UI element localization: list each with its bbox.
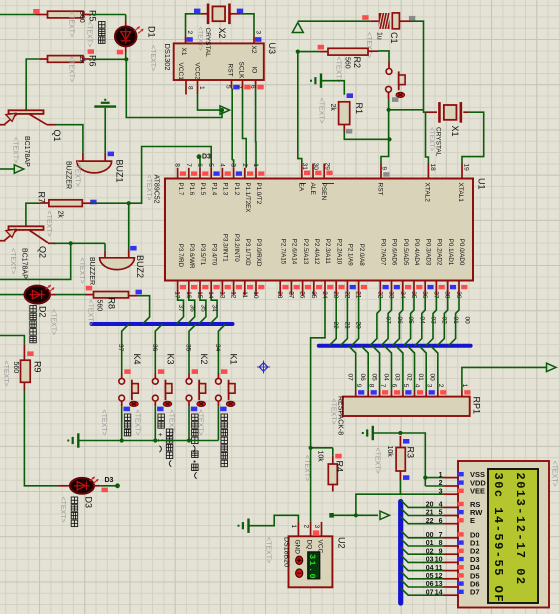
wire Q2 collector node <box>54 242 105 244</box>
svg-text:4: 4 <box>414 384 421 388</box>
svg-text:P2.5/A13: P2.5/A13 <box>302 239 309 265</box>
R4 bottom stub <box>332 485 334 492</box>
LCD screen <box>488 469 538 603</box>
svg-text:Q2: Q2 <box>38 246 48 258</box>
svg-text:<TEXT>: <TEXT> <box>87 300 94 326</box>
U1 port3 pin stubs <box>177 281 179 296</box>
svg-text:<TEXT>: <TEXT> <box>50 309 57 335</box>
VCC rail near U2 <box>329 513 334 518</box>
LED D2 light arrows <box>46 285 51 289</box>
svg-text:<TEXT>: <TEXT> <box>2 361 9 387</box>
pin indicator D3 (red) <box>102 488 108 493</box>
svg-text:U1: U1 <box>477 178 487 190</box>
U3 pin 8 stub (VCC1, n.c.) <box>185 80 187 95</box>
svg-text:ALE: ALE <box>309 183 316 196</box>
wire left edge to D2 <box>0 294 25 296</box>
svg-text:3: 3 <box>230 163 237 167</box>
svg-text:P1.2: P1.2 <box>233 183 240 196</box>
net label D3 at P1.5 <box>199 159 201 168</box>
wire to BUZ2 pin1 <box>104 243 106 250</box>
bus middle <box>319 344 471 348</box>
wire DQ down to U2 pin2 <box>310 448 312 522</box>
svg-text:560: 560 <box>96 300 103 312</box>
svg-text:8: 8 <box>367 384 374 388</box>
svg-text:8: 8 <box>439 540 443 547</box>
junction dot DQ/R4 <box>309 446 313 450</box>
wire X1 left / XTAL2 <box>426 111 438 113</box>
svg-text:04: 04 <box>426 565 434 572</box>
svg-text:6: 6 <box>439 518 443 525</box>
svg-text:10: 10 <box>252 291 259 299</box>
power symbol VCC at U3 pin1 <box>220 106 230 114</box>
pin indicator C1 left (red) <box>362 15 368 20</box>
reset button terminal 1 <box>386 69 392 75</box>
resistor R6 <box>48 56 84 63</box>
svg-text:35: 35 <box>185 344 192 352</box>
svg-text:22: 22 <box>332 322 339 330</box>
svg-text:9: 9 <box>355 384 362 388</box>
wire X2 right to U3 X2 pin <box>229 13 241 15</box>
svg-text:36: 36 <box>188 305 195 313</box>
svg-text:<TEXT>: <TEXT> <box>167 410 174 436</box>
svg-text:00: 00 <box>429 374 436 382</box>
svg-text:R9: R9 <box>32 361 42 373</box>
pin indicator BUZ1 (blue) <box>108 152 114 157</box>
U1 pin 18 stub <box>427 164 429 179</box>
svg-text:2: 2 <box>241 163 248 167</box>
button function labels (Chinese) <box>124 414 131 421</box>
wire reset button to XTAL2 node <box>388 92 390 99</box>
wire VEE branch up <box>356 494 401 515</box>
svg-text:560: 560 <box>12 362 19 374</box>
pin indicator X2 pin2 (blue) <box>237 9 243 14</box>
wire Q1 collector to BUZ1 pin1 <box>56 125 83 153</box>
svg-text:36: 36 <box>151 344 158 352</box>
pin indicator R1 top (blue) <box>347 93 353 98</box>
svg-text:P0.0/AD0: P0.0/AD0 <box>458 239 465 266</box>
svg-text:05: 05 <box>370 374 377 382</box>
LCD pin stubs <box>444 477 459 479</box>
svg-text:R5: R5 <box>88 10 98 22</box>
C1 right wire <box>399 20 412 22</box>
pin indicator reset button (gray) <box>392 97 398 102</box>
svg-text:8: 8 <box>174 163 181 167</box>
pin indicator U3 pin2 (blue) <box>186 37 192 42</box>
svg-text:35: 35 <box>200 305 207 313</box>
resistor R7 <box>49 200 82 207</box>
buzzer BUZ2 <box>100 258 135 270</box>
svg-text:6: 6 <box>249 85 256 89</box>
wire BUZ2 pin2 up <box>128 203 130 250</box>
U2 up button <box>296 556 303 565</box>
svg-text:<TEXT>: <TEXT> <box>330 399 337 425</box>
junction dot R7 wire / BUZ2 pin2 <box>127 201 131 205</box>
wire node A down and right to VCC2 arrow <box>126 59 222 117</box>
svg-text:BUZ1: BUZ1 <box>115 160 125 183</box>
svg-text:10k: 10k <box>317 451 324 463</box>
svg-text:EA: EA <box>298 183 305 192</box>
svg-text:P1.7: P1.7 <box>177 183 184 196</box>
wire R8 right stub <box>129 295 138 297</box>
wire R3 node down to LCD pin1/pin2 <box>424 433 426 486</box>
U1 port0 pin stubs <box>379 281 381 296</box>
svg-text:DS18B20: DS18B20 <box>283 537 290 567</box>
svg-text:<TEXT>: <TEXT> <box>45 211 52 237</box>
pin indicator R2 left (red) <box>318 45 324 50</box>
ground near R3 <box>363 426 373 440</box>
svg-text:BUZZER: BUZZER <box>88 257 95 285</box>
svg-text:CRYSTAL: CRYSTAL <box>204 28 211 58</box>
power symbol VCC left edge <box>0 168 14 170</box>
svg-text:<TEXT>: <TEXT> <box>197 27 204 51</box>
svg-text:P2.4/A12: P2.4/A12 <box>313 239 320 265</box>
svg-text:<TEXT>: <TEXT> <box>68 11 75 37</box>
svg-text:26: 26 <box>299 291 306 299</box>
svg-text:P0.1/AD1: P0.1/AD1 <box>447 239 454 266</box>
svg-text:<TEXT>: <TEXT> <box>145 175 152 201</box>
svg-text:<TEXT>: <TEXT> <box>303 455 310 481</box>
pin indicator R3 bottom (blue) <box>403 475 409 480</box>
svg-text:20: 20 <box>355 322 362 330</box>
svg-text:P3.6/WR: P3.6/WR <box>188 244 195 269</box>
push button K1 <box>217 373 219 378</box>
svg-text:<TEXT>: <TEXT> <box>318 98 325 124</box>
LED D2 <box>25 286 50 304</box>
wire R7 left to Q2 base <box>40 202 49 204</box>
svg-text:P3.7/RD: P3.7/RD <box>177 244 184 268</box>
svg-text:7: 7 <box>439 532 443 539</box>
svg-text:1: 1 <box>290 525 297 529</box>
LED D3 light arrows <box>90 477 95 481</box>
junction dot VCC rail <box>296 50 300 54</box>
svg-text:P2.3/A11: P2.3/A11 <box>324 239 331 265</box>
junction dot Q2 collector <box>69 241 73 245</box>
svg-text:<TEXT>: <TEXT> <box>265 537 272 563</box>
crystal X1 <box>444 105 457 120</box>
svg-text:4: 4 <box>218 163 225 167</box>
pin indicator R5 left (red) <box>33 9 39 14</box>
svg-text:<TEXT>: <TEXT> <box>74 161 81 187</box>
svg-text:C1: C1 <box>389 32 399 44</box>
svg-text:SCLK: SCLK <box>238 62 245 80</box>
svg-text:X1: X1 <box>450 126 460 137</box>
svg-text:VEE: VEE <box>470 487 485 496</box>
svg-text:2: 2 <box>437 384 444 388</box>
U2 down button <box>296 569 303 578</box>
pin indicator U3 pin7 (red) <box>244 85 250 90</box>
wire VCC rail to R5 <box>0 14 36 16</box>
pin indicator U3 pin6 (red) <box>257 85 263 90</box>
svg-text:P3.2/INT0: P3.2/INT0 <box>233 234 240 262</box>
svg-text:5: 5 <box>225 85 232 89</box>
svg-text:560: 560 <box>78 11 85 23</box>
svg-text:19: 19 <box>463 164 470 172</box>
wire D1 cathode down to node <box>125 46 127 52</box>
svg-text:2: 2 <box>302 525 309 529</box>
wire R8 right into bus <box>137 296 150 324</box>
chip U1 AT89C52 body <box>165 179 473 281</box>
junction dot VCC node <box>220 108 224 112</box>
svg-text:25: 25 <box>310 291 317 299</box>
svg-text:IO: IO <box>251 67 258 74</box>
junction dot VEE branch <box>354 513 358 517</box>
svg-text:<TEXT>: <TEXT> <box>100 410 107 436</box>
svg-text:RP1: RP1 <box>472 397 482 415</box>
bus left <box>92 322 233 326</box>
svg-text:K3: K3 <box>166 354 176 365</box>
svg-text:1: 1 <box>439 472 443 479</box>
svg-text:P1.6: P1.6 <box>188 183 195 196</box>
svg-text:BUZZER: BUZZER <box>65 161 72 189</box>
svg-text:<TEXT>: <TEXT> <box>374 448 381 474</box>
svg-text:2: 2 <box>439 480 443 487</box>
wire R3 bottom to VEE wire <box>399 471 401 480</box>
wire LCD pin1 VSS <box>425 477 443 479</box>
wire RP1 pin1 to power arrow <box>462 367 547 390</box>
svg-text:R1: R1 <box>354 103 364 115</box>
svg-text:5: 5 <box>439 510 443 517</box>
svg-text:DS1302: DS1302 <box>163 44 172 71</box>
svg-text:P2.1/A9: P2.1/A9 <box>347 244 354 267</box>
svg-text:DQ: DQ <box>306 540 313 550</box>
svg-text:P2.6/A14: P2.6/A14 <box>291 239 298 265</box>
svg-text:34: 34 <box>214 344 221 352</box>
wires P0 to bus with net labels 07..00 <box>370 296 381 346</box>
svg-text:20: 20 <box>426 502 434 509</box>
svg-text:K4: K4 <box>132 354 142 365</box>
svg-text:XTAL1: XTAL1 <box>457 183 464 203</box>
resistor R4 <box>328 464 337 485</box>
wire left edge to R9 <box>0 336 24 345</box>
svg-text:RST: RST <box>227 64 234 77</box>
svg-text:P0.7/AD7: P0.7/AD7 <box>380 239 387 266</box>
pin indicator C1 right (gray) <box>409 16 415 21</box>
pin indicator R6 right (red) <box>88 49 94 54</box>
svg-text:6: 6 <box>391 384 398 388</box>
svg-text:X2: X2 <box>217 28 227 39</box>
pin indicator D1 cathode (red) <box>117 50 123 55</box>
svg-text:7: 7 <box>379 384 386 388</box>
marker diamond <box>259 363 268 372</box>
svg-text:7: 7 <box>185 163 192 167</box>
wire junction down-left to edge <box>0 243 71 279</box>
LCD pin indicators <box>458 472 464 476</box>
svg-text:30c 14-59-55 OF: 30c 14-59-55 OF <box>491 473 505 604</box>
svg-text:04: 04 <box>382 374 389 382</box>
svg-text:10k: 10k <box>386 446 393 458</box>
U1 port1 pin indicators <box>180 171 186 175</box>
svg-text:<TEXT>: <TEXT> <box>59 497 66 523</box>
resistor R3 <box>396 448 405 472</box>
svg-text:D3: D3 <box>84 497 94 509</box>
svg-text:X1: X1 <box>180 48 187 56</box>
U1 pin 19 stub <box>461 164 463 179</box>
svg-text:Q1: Q1 <box>52 130 62 142</box>
svg-text:P0.2/AD2: P0.2/AD2 <box>436 239 443 266</box>
svg-text:P1.3: P1.3 <box>222 183 229 196</box>
transistor Q1 collector <box>29 114 47 125</box>
ground for BUZ1 <box>94 100 116 107</box>
svg-text:34: 34 <box>211 305 218 313</box>
svg-text:VCC2: VCC2 <box>194 63 201 81</box>
wires P2.2 P2.1 P2.0 to bus with net labels 22 21 20 <box>329 296 336 346</box>
svg-text:3: 3 <box>439 488 443 495</box>
svg-text:P1.0/T2: P1.0/T2 <box>255 183 262 205</box>
push button K2 <box>188 373 190 378</box>
svg-text:E: E <box>470 516 475 525</box>
svg-text:<TEXT>: <TEXT> <box>149 45 156 71</box>
svg-text:06: 06 <box>359 374 366 382</box>
svg-text:29: 29 <box>323 163 330 171</box>
svg-text:U2: U2 <box>337 537 347 549</box>
svg-text:P3.4/T0: P3.4/T0 <box>210 244 217 266</box>
wires LCD bus to pins 4-14 <box>401 500 444 507</box>
crystal X2 <box>212 6 225 21</box>
wire R5 to D1 anode <box>83 14 91 16</box>
svg-text:1: 1 <box>252 163 259 167</box>
svg-text:P2.0/A8: P2.0/A8 <box>358 244 365 267</box>
ground for U2 <box>239 519 249 533</box>
svg-text:31.0: 31.0 <box>307 554 317 580</box>
pin indicator R4 top (red) <box>335 454 341 459</box>
svg-text:PSEN: PSEN <box>320 183 327 201</box>
transistor Q2 collector <box>29 230 48 243</box>
pin indicator R8 left (red) <box>86 286 92 291</box>
svg-text:D3: D3 <box>105 477 114 484</box>
RP1 pin 1 stub <box>461 391 463 397</box>
svg-text:2k: 2k <box>329 104 336 112</box>
junction dot VSS <box>423 476 427 480</box>
svg-text:5: 5 <box>207 163 214 167</box>
svg-text:3: 3 <box>313 525 320 529</box>
svg-text:P0.3/AD3: P0.3/AD3 <box>424 239 431 266</box>
svg-text:<TEXT>: <TEXT> <box>134 410 141 436</box>
wire VCC to C1 <box>298 20 362 22</box>
svg-text:K1: K1 <box>229 354 239 365</box>
svg-text:<TEXT>: <TEXT> <box>12 137 19 163</box>
pin indicator R7 right (blue) <box>90 200 96 205</box>
U1 EA ALE PSEN pins <box>301 164 303 179</box>
svg-text:BC178AP: BC178AP <box>23 136 30 167</box>
svg-text:11: 11 <box>435 565 443 572</box>
power symbol VCC main <box>292 23 303 33</box>
svg-text:U3: U3 <box>267 43 277 55</box>
transistor Q2 base bar <box>9 226 44 230</box>
wire R7 right up to P1.4 net <box>82 202 91 204</box>
svg-text:<TEXT>: <TEXT> <box>551 461 558 487</box>
svg-text:01: 01 <box>417 374 424 382</box>
svg-text:28: 28 <box>276 291 283 299</box>
wires P3.7-P3.4 to bus with net labels 37 36 35 34 <box>176 296 183 325</box>
svg-text:30: 30 <box>312 163 319 171</box>
svg-text:3: 3 <box>255 31 262 35</box>
U3 pin 7 (SCLK) wire to P1.1 <box>242 80 244 89</box>
wire P2.3 to DQ net <box>311 296 325 448</box>
svg-text:06: 06 <box>426 581 434 588</box>
svg-text:02: 02 <box>426 548 434 555</box>
wire D2 to R8 <box>50 294 56 296</box>
svg-text:1u: 1u <box>376 32 383 40</box>
wire DQ node to R4 <box>311 447 333 449</box>
pin indicator U3 pin5 (blue) <box>233 85 239 90</box>
svg-text:D3: D3 <box>202 154 211 161</box>
svg-text:8: 8 <box>187 86 194 90</box>
svg-text:18: 18 <box>429 164 436 172</box>
svg-text:2: 2 <box>186 31 193 35</box>
transistor Q2 emitter <box>5 230 18 240</box>
transistor Q1 base bar <box>9 110 44 114</box>
svg-text:21: 21 <box>343 322 350 330</box>
svg-text:R4: R4 <box>335 461 345 473</box>
chip U3 DS1302 body <box>174 43 264 80</box>
svg-text:XTAL2: XTAL2 <box>424 183 431 203</box>
svg-text:AT89C52: AT89C52 <box>153 175 160 204</box>
svg-text:27: 27 <box>287 291 294 299</box>
svg-text:02: 02 <box>405 374 412 382</box>
svg-text:<TEXT>: <TEXT> <box>428 127 435 151</box>
svg-text:10: 10 <box>435 557 443 564</box>
wire ground to BUZ1 pin2 <box>104 108 106 153</box>
wire end dot <box>115 483 120 488</box>
chip LCD body <box>458 461 549 608</box>
svg-text:P0.6/AD6: P0.6/AD6 <box>391 239 398 266</box>
resistor pack RP1 RESPACK-8 body <box>343 397 470 416</box>
chip U2 DS18B20 body <box>289 536 333 587</box>
wire R6 right to node A <box>83 58 91 60</box>
pin indicator R1 bottom (gray) <box>346 129 352 134</box>
svg-text:07: 07 <box>426 589 434 596</box>
capacitor C1 polarized plate <box>370 20 378 22</box>
svg-text:P3.3/INT1: P3.3/INT1 <box>222 234 229 262</box>
svg-text:R3: R3 <box>406 447 416 459</box>
svg-text:31: 31 <box>301 163 308 171</box>
svg-text:2013-12-17 02: 2013-12-17 02 <box>513 473 527 586</box>
pin indicator R3 top (blue) <box>403 439 409 444</box>
node A junction dot <box>124 57 128 61</box>
svg-text:5: 5 <box>402 384 409 388</box>
wire D3 cathode <box>94 485 100 487</box>
svg-text:R2: R2 <box>352 57 362 69</box>
svg-text:P2.7/A15: P2.7/A15 <box>279 239 286 265</box>
svg-text:11: 11 <box>241 291 248 298</box>
LED D1 <box>115 27 136 47</box>
pin indicator R8 right (blue) <box>136 290 142 295</box>
wires bus to RESPACK-8 with net labels <box>349 346 356 391</box>
svg-text:13: 13 <box>435 581 443 588</box>
svg-text:P3.0/RXD: P3.0/RXD <box>255 239 262 267</box>
wire LCD pin2 VDD <box>425 485 443 487</box>
wire X1 right / XTAL1 <box>463 111 468 113</box>
svg-text:3: 3 <box>425 384 432 388</box>
svg-text:2k: 2k <box>57 211 64 219</box>
svg-text:7: 7 <box>236 85 243 89</box>
svg-text:BC178AP: BC178AP <box>21 248 28 279</box>
resistor R2 <box>328 48 368 55</box>
svg-text:GND: GND <box>294 540 301 555</box>
buzzer BUZ1 <box>77 161 112 173</box>
resistor R9 <box>21 360 31 382</box>
U1 port0 pin indicators <box>383 285 389 289</box>
capacitor C1 plate 2 <box>392 13 399 29</box>
svg-text:9: 9 <box>381 167 388 171</box>
push button K3 <box>154 373 156 378</box>
svg-text:12: 12 <box>230 291 237 299</box>
ground for R1 <box>311 74 321 88</box>
svg-text:<TEXT>: <TEXT> <box>335 57 342 83</box>
junction dot R1 node <box>387 137 391 141</box>
pin indicator R9 top (red) <box>27 351 33 356</box>
svg-text:K2: K2 <box>199 354 209 365</box>
